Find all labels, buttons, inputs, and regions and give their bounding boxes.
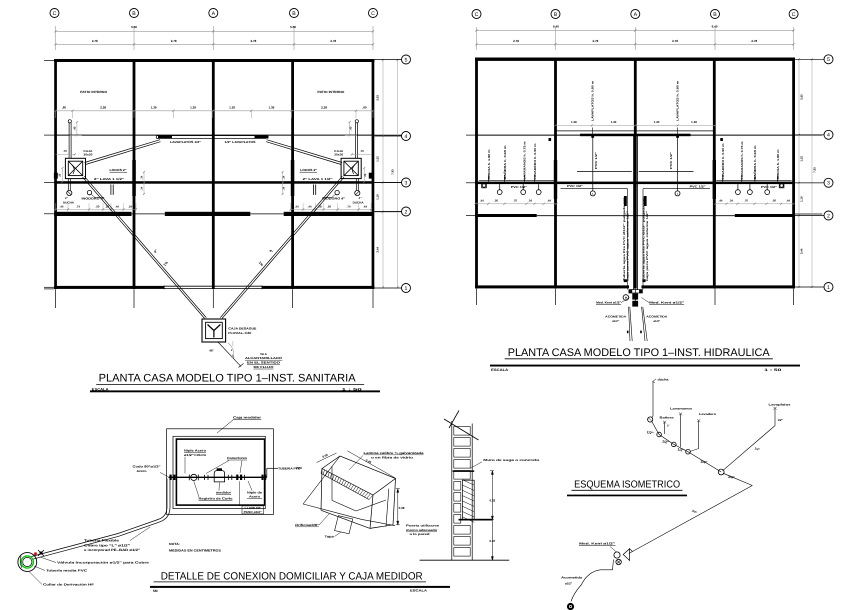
svg-text:1.38: 1.38 xyxy=(691,120,697,124)
svg-text:1/2″ LAVAPLATOS: 1/2″ LAVAPLATOS xyxy=(225,140,256,144)
svg-text:Lavadero: Lavadero xyxy=(699,412,716,416)
caja medidor inner thick box xyxy=(176,439,264,505)
row 4 line + counter (right plan) xyxy=(477,134,794,136)
ground line xyxy=(420,559,510,561)
incoming flexible pipe S-curve xyxy=(32,479,168,557)
svg-text:2: 2 xyxy=(827,213,830,219)
bricks xyxy=(454,427,470,436)
svg-text:LAVADERO h. 0.90 m: LAVADERO h. 0.90 m xyxy=(721,143,725,180)
svg-text:LAVAPLATOS h. 0.80 m: LAVAPLATOS h. 0.80 m xyxy=(590,80,594,121)
svg-text:PVC 1/2″: PVC 1/2″ xyxy=(669,151,673,169)
svg-text:ESCALA: ESCALA xyxy=(491,368,509,372)
svg-text:Válvula Incorporación ø1/2″ pa: Válvula Incorporación ø1/2″ para Cobre xyxy=(57,561,150,565)
svg-text:7.93: 7.93 xyxy=(813,167,817,173)
svg-text:a la pared: a la pared xyxy=(410,532,430,536)
svg-text:Acero: Acero xyxy=(249,495,260,499)
svg-text:Muro de soga o concreto: Muro de soga o concreto xyxy=(483,458,539,462)
svg-text:A: A xyxy=(634,12,638,18)
svg-text:INODORO 4″: INODORO 4″ xyxy=(82,197,106,201)
svg-text:DUCHA h. 1.80 m: DUCHA h. 1.80 m xyxy=(776,149,780,180)
svg-text:1 : 50: 1 : 50 xyxy=(342,387,362,391)
svg-text:.50: .50 xyxy=(494,199,498,203)
label LLAVE DE PASO 1/2" xyxy=(242,506,264,514)
svg-text:.50: .50 xyxy=(772,199,776,203)
svg-text:LAVADERO h. 0.90 m: LAVADERO h. 0.90 m xyxy=(533,143,537,180)
grid extensions below right plan xyxy=(476,289,478,305)
dimension line 5.56 + 5.56 (left plan) xyxy=(56,30,374,32)
svg-text:C: C xyxy=(475,12,479,18)
svg-text:Cobre tipo “L” ø1/2″: Cobre tipo “L” ø1/2″ xyxy=(84,543,131,547)
svg-text:.34: .34 xyxy=(729,199,733,203)
main pipe through meter box xyxy=(169,476,267,478)
branch lavadero xyxy=(698,421,700,449)
dimension line 2.78 x4 (right plan) xyxy=(477,43,794,45)
svg-text:.74: .74 xyxy=(76,205,80,209)
svg-text:PVC 1/2″: PVC 1/2″ xyxy=(761,185,778,189)
PVC 1/2 riser left house xyxy=(592,136,594,191)
svg-text:1: 1 xyxy=(405,286,408,292)
floor drain (ducha) below box xyxy=(67,179,69,191)
svg-text:.44: .44 xyxy=(719,199,723,203)
toilet drain circle (inodoro) xyxy=(87,190,91,194)
svg-text:ducha: ducha xyxy=(658,378,669,382)
row 2 wall with door gaps (left plan) xyxy=(54,212,131,216)
valve drops below supply line (left house) xyxy=(499,184,501,190)
dim lines fixtures (right plan left house) xyxy=(475,203,556,205)
svg-text:30x30: 30x30 xyxy=(83,152,93,156)
small vertical dim beside shower box xyxy=(363,168,365,182)
svg-text:.34: .34 xyxy=(140,186,143,190)
grid line extensions left of plan xyxy=(44,182,54,184)
svg-text:6.40: 6.40 xyxy=(712,25,718,29)
svg-text:e incorporad PE–BAD ø1/2″: e incorporad PE–BAD ø1/2″ xyxy=(84,548,141,552)
street main dot xyxy=(567,603,574,610)
svg-text:3: 3 xyxy=(827,181,830,187)
svg-text:DUCHA: DUCHA xyxy=(353,200,364,204)
brick wall section verticals xyxy=(451,421,453,560)
wall crossing blobs xyxy=(262,475,264,480)
svg-text:VA A: VA A xyxy=(260,352,268,356)
door mark on exterior wall xyxy=(54,173,58,179)
roof diagonals xyxy=(444,419,479,440)
branch bañera xyxy=(664,423,666,434)
PVC 1/2 riser right house xyxy=(677,136,679,191)
svg-text:.45: .45 xyxy=(348,126,352,130)
svg-text:Orificioø3/8″: Orificioø3/8″ xyxy=(295,523,320,527)
lintel thick lines xyxy=(453,470,475,472)
row 3 wall (right plan) xyxy=(475,182,795,185)
svg-text:.70: .70 xyxy=(63,149,67,153)
svg-text:.34: .34 xyxy=(282,175,285,179)
svg-text:2.78: 2.78 xyxy=(171,39,177,43)
svg-text:.34: .34 xyxy=(528,199,532,203)
svg-text:LODOS 2″: LODOS 2″ xyxy=(300,168,318,172)
svg-text:.34: .34 xyxy=(295,205,299,209)
valve incorporacion (red) on main xyxy=(34,552,37,555)
svg-text:BAÑERA h. 0.60 m: BAÑERA h. 0.60 m xyxy=(503,145,507,180)
svg-text:2.78: 2.78 xyxy=(672,39,678,43)
svg-text:2: 2 xyxy=(405,209,408,215)
svg-text:1.39: 1.39 xyxy=(229,105,235,109)
dim .45 vertical xyxy=(349,122,351,135)
bathroom partition walls y=171 xyxy=(577,170,632,172)
svg-text:5.56: 5.56 xyxy=(131,25,137,29)
svg-text:30x30: 30x30 xyxy=(334,152,344,156)
svg-text:C: C xyxy=(792,12,796,18)
svg-text:2.78: 2.78 xyxy=(751,39,757,43)
valve circles at meter xyxy=(614,552,620,558)
vent pipe riser with circle top xyxy=(355,120,358,123)
svg-text:ESCALA: ESCALA xyxy=(92,387,110,391)
caja medidor middle box xyxy=(173,436,265,508)
svg-text:1.39: 1.39 xyxy=(268,105,274,109)
svg-text:2.78: 2.78 xyxy=(330,39,336,43)
svg-text:1.40: 1.40 xyxy=(611,120,617,124)
svg-text:o en fibra de vidrio: o en fibra de vidrio xyxy=(371,455,413,459)
svg-text:2″ LAVA 1 1/2″: 2″ LAVA 1 1/2″ xyxy=(94,177,125,181)
svg-text:1.18: 1.18 xyxy=(376,194,380,200)
svg-text:Registro de Corte: Registro de Corte xyxy=(199,497,233,501)
union ticks right xyxy=(227,475,229,480)
registro de corte circle fitting xyxy=(191,474,197,480)
valve circle ducha xyxy=(648,417,653,422)
svg-text:ESCALA: ESCALA xyxy=(410,588,428,592)
caja medidor outer box xyxy=(167,429,274,515)
walls columns right plan xyxy=(475,58,478,289)
right dim strip (right plan) xyxy=(798,59,800,287)
svg-text:.70: .70 xyxy=(360,149,364,153)
svg-text:0.38: 0.38 xyxy=(399,506,405,510)
small vertical dim beside shower box xyxy=(61,168,63,182)
svg-text:LODOS 2″: LODOS 2″ xyxy=(110,168,128,172)
svg-text:.25: .25 xyxy=(364,173,367,177)
svg-text:.45: .45 xyxy=(72,126,76,130)
svg-text:Tubería media PVC: Tubería media PVC xyxy=(46,569,88,573)
caja 30x30 shower trap box with X xyxy=(341,158,361,178)
outlet line 45 degrees to sewer xyxy=(218,342,241,367)
svg-text:.60: .60 xyxy=(362,105,367,109)
union ticks xyxy=(204,475,206,480)
svg-text:B: B xyxy=(292,11,296,17)
dimension line 2.78 x4 (left plan) xyxy=(56,43,374,45)
isometric meter box open top rim xyxy=(322,456,396,495)
meter symbol triangle xyxy=(623,549,629,561)
svg-text:NOTA:: NOTA: xyxy=(169,542,180,546)
svg-text:1/2″: 1/2″ xyxy=(778,418,784,422)
svg-text:A: A xyxy=(212,11,216,17)
elbow + step to TUBERIA PVC label xyxy=(266,468,268,477)
shower mixer symbol right xyxy=(779,183,784,188)
kitchen counter with sinks (lavaplatos) xyxy=(157,136,267,139)
lavatory twin pipes below wall xyxy=(110,185,112,195)
svg-text:.34: .34 xyxy=(282,186,285,190)
svg-text:.44: .44 xyxy=(115,205,119,209)
svg-text:1.52: 1.52 xyxy=(799,156,803,162)
top wall (right plan) xyxy=(475,58,795,61)
svg-text:.25: .25 xyxy=(59,173,62,177)
svg-text:PVC 1/2″: PVC 1/2″ xyxy=(511,185,528,189)
svg-text:DE FLUJO: DE FLUJO xyxy=(254,365,275,369)
branch supply lines to central meters xyxy=(561,188,628,190)
supply pipe double line over row3 xyxy=(479,180,554,182)
row 3 wall (left plan) xyxy=(54,181,374,184)
svg-text:1.18: 1.18 xyxy=(799,196,803,202)
dimension line .44 .74 .50 .28 .44 .34 xyxy=(56,208,137,210)
water meters at bottom center xyxy=(624,279,627,282)
dim lines fixtures (right plan right house) xyxy=(715,203,794,205)
svg-text:LAVAPLATOS h. 0.80 m: LAVAPLATOS h. 0.80 m xyxy=(675,80,679,121)
isometric box right verticals xyxy=(393,479,396,525)
valve at junction xyxy=(718,469,724,475)
svg-text:2.78: 2.78 xyxy=(250,39,256,43)
door mark on exterior wall xyxy=(369,173,373,179)
isometric box outer back-left edge and front skirt xyxy=(303,456,340,504)
svg-text:C: C xyxy=(53,11,57,17)
central supply pipes pair xyxy=(633,135,635,290)
svg-text:3: 3 xyxy=(405,180,408,186)
svg-text:ø1/2″: ø1/2″ xyxy=(565,582,573,586)
dimension line 6.40 + 6.40 (right plan) xyxy=(477,29,794,31)
dim .70 horizontal xyxy=(352,153,371,155)
svg-text:Acero: Acero xyxy=(137,469,147,473)
grid bubbles C B A B C (right plan) xyxy=(472,10,481,19)
svg-text:1: 1 xyxy=(827,285,830,291)
row 2 wall segments (right plan) xyxy=(475,214,537,217)
svg-text:1.52: 1.52 xyxy=(376,156,380,162)
valve fitting left xyxy=(170,475,172,480)
angle arc gray xyxy=(228,343,234,357)
svg-text:1.39: 1.39 xyxy=(190,105,196,109)
svg-text:C: C xyxy=(371,11,375,17)
caja de registro Y at bottom center xyxy=(202,319,226,342)
svg-text:PVC 1/2″: PVC 1/2″ xyxy=(690,185,707,189)
svg-text:5: 5 xyxy=(405,57,408,63)
row 4 interior wall / counter line xyxy=(56,134,374,136)
svg-text:DETALLE DE CONEXION DOMICILIAR: DETALLE DE CONEXION DOMICILIAR Y CAJA ME… xyxy=(161,570,423,582)
branch lavamanos xyxy=(680,414,682,447)
svg-text:B: B xyxy=(132,11,136,17)
svg-text:SM: SM xyxy=(153,589,158,593)
row bubbles 5 4 3 2 1 (right plan) xyxy=(795,58,824,60)
concrete hatch block xyxy=(462,480,474,519)
svg-text:45°: 45° xyxy=(209,349,214,353)
svg-text:PATIO INTERNO: PATIO INTERNO xyxy=(80,90,108,94)
svg-text:LAVAMANOS h. 0.75 m: LAVAMANOS h. 0.75 m xyxy=(740,141,744,180)
svg-text:2.62: 2.62 xyxy=(376,95,380,101)
svg-text:EN EL SENTIDO: EN EL SENTIDO xyxy=(247,361,281,365)
svg-text:.34: .34 xyxy=(128,205,132,209)
svg-text:PLANTA CASA MODELO TIPO 1–INST: PLANTA CASA MODELO TIPO 1–INST. HIDRAULI… xyxy=(508,347,771,359)
svg-text:.44: .44 xyxy=(308,205,312,209)
acometida pipes below meters xyxy=(629,307,630,341)
dim 0.45 isometric xyxy=(347,451,395,478)
svg-text:CAJA DESAGUE: CAJA DESAGUE xyxy=(228,326,256,330)
lavatory twin pipes below wall xyxy=(315,185,317,195)
svg-text:Tapa: Tapa xyxy=(325,535,334,539)
isometric box left front vertical xyxy=(321,469,322,511)
dim .45 vertical xyxy=(76,122,78,135)
svg-text:.70: .70 xyxy=(744,199,748,203)
vertical dim .34 .34 xyxy=(282,172,284,194)
svg-text:DUCHA h. 1.80 m: DUCHA h. 1.80 m xyxy=(487,149,491,180)
svg-text:baja para PVC agua caliente 1/: baja para PVC agua caliente 1/2″ xyxy=(646,210,649,281)
main drain diagonal pipe to caja Y xyxy=(222,177,344,318)
wall column B right xyxy=(291,59,294,289)
svg-text:ALCANTARILLADO: ALCANTARILLADO xyxy=(245,356,283,360)
rotated pipe labels central left xyxy=(624,196,627,206)
svg-text:.74: .74 xyxy=(347,205,351,209)
row 1 bottom wall with central window band xyxy=(54,286,164,289)
svg-text:ESQUEMA ISOMETRICO: ESQUEMA ISOMETRICO xyxy=(574,479,680,490)
svg-text:Conectores: Conectores xyxy=(227,456,247,460)
floor drain (ducha) below box xyxy=(357,179,359,191)
svg-text:.44: .44 xyxy=(547,199,551,203)
svg-text:ø1/2″: ø1/2″ xyxy=(653,319,661,323)
svg-text:5: 5 xyxy=(827,57,830,63)
interior dimension line y=111 (left plan) xyxy=(56,110,374,112)
branch lavaplatos xyxy=(774,409,776,426)
shower mixer symbol left xyxy=(482,183,487,188)
svg-text:.70: .70 xyxy=(513,199,517,203)
svg-text:B: B xyxy=(713,12,717,18)
svg-text:.50: .50 xyxy=(96,205,100,209)
svg-text:2.62: 2.62 xyxy=(799,94,803,100)
row 1 bottom wall with meter gap (right plan) xyxy=(475,285,629,288)
svg-text:MEDIDAS EN CENTIMETROS: MEDIDAS EN CENTIMETROS xyxy=(169,549,221,553)
dim 0.38 isometric xyxy=(397,489,399,525)
svg-text:ø1/2″×10cm: ø1/2″×10cm xyxy=(184,453,206,457)
caja 30x30 shower trap box with X xyxy=(65,158,85,178)
svg-text:0.37: 0.37 xyxy=(489,539,495,543)
svg-text:BAÑERA h. 0.60 m: BAÑERA h. 0.60 m xyxy=(753,145,757,180)
dimension extension lines (left plan top) xyxy=(55,26,57,50)
svg-text:ø1/2″: ø1/2″ xyxy=(612,319,620,323)
top wall (left plan) xyxy=(54,59,374,62)
svg-text:Acometida: Acometida xyxy=(561,576,583,580)
grid line extensions below plan xyxy=(55,289,57,308)
vertical dim .34 .34 xyxy=(143,172,145,194)
svg-text:medidor: medidor xyxy=(216,490,232,494)
valve fitting right (niple) xyxy=(236,475,238,480)
svg-text:DUCHA: DUCHA xyxy=(63,200,74,204)
isometric box interior back edges xyxy=(331,466,333,500)
svg-text:PLANTA CASA MODELO TIPO 1–INST: PLANTA CASA MODELO TIPO 1–INST. SANITARI… xyxy=(99,373,357,385)
vent pipe riser with circle top xyxy=(68,120,71,123)
svg-text:2.78: 2.78 xyxy=(92,39,98,43)
svg-text:2.44: 2.44 xyxy=(799,248,803,254)
valve drops below supply line (right house) xyxy=(737,184,739,190)
svg-text:Tubería Flexible: Tubería Flexible xyxy=(84,539,119,543)
main drain diagonal pipe to caja Y xyxy=(83,177,205,318)
svg-text:4: 4 xyxy=(827,133,830,139)
svg-text:PATIO INTERNO: PATIO INTERNO xyxy=(317,90,345,94)
svg-text:2.28: 2.28 xyxy=(100,105,106,109)
svg-text:PVC: PVC xyxy=(296,466,303,470)
svg-text:2.44: 2.44 xyxy=(376,247,380,253)
acometida curve down to main xyxy=(571,560,614,602)
svg-text:.50: .50 xyxy=(327,205,331,209)
svg-text:PVC 1/2″: PVC 1/2″ xyxy=(594,151,598,169)
svg-text:Bañera: Bañera xyxy=(660,416,675,420)
wall section dim lines xyxy=(491,471,493,560)
dimension extension lines (right plan top) xyxy=(476,27,478,50)
svg-text:1.38: 1.38 xyxy=(571,120,577,124)
grid bubbles C B A B C (left plan) xyxy=(50,9,59,18)
svg-text:Lamina calibre ¼ galvanizada: Lamina calibre ¼ galvanizada xyxy=(364,451,424,455)
svg-text:PASO ø1/2″: PASO ø1/2″ xyxy=(244,510,263,514)
svg-text:Caja medidor: Caja medidor xyxy=(233,416,262,420)
svg-text:Lavaplatos: Lavaplatos xyxy=(769,402,792,406)
dim 0.55 isometric xyxy=(317,453,337,463)
svg-text:.44: .44 xyxy=(363,205,367,209)
svg-text:4: 4 xyxy=(405,134,408,140)
wall column C right xyxy=(372,59,375,289)
wall column C left xyxy=(54,59,57,289)
svg-text:B: B xyxy=(554,12,558,18)
isometric box bottom edges xyxy=(321,510,370,528)
svg-text:LAVAMANOS h. 0.75 m: LAVAMANOS h. 0.75 m xyxy=(523,141,527,180)
wall column B left xyxy=(133,59,136,289)
wall column A xyxy=(212,59,215,289)
svg-text:LAVAPLATOS 1/2″: LAVAPLATOS 1/2″ xyxy=(170,140,202,144)
svg-text:baja para PVC agua caliente 1/: baja para PVC agua caliente 1/2″ xyxy=(626,210,629,281)
svg-text:6.40: 6.40 xyxy=(553,25,559,29)
dimension line .44 .74 .50 .28 .44 .34 xyxy=(291,208,372,210)
open lid flap (tapa) xyxy=(335,516,353,534)
main line to meter xyxy=(723,473,752,485)
collar de derivacion green main circle xyxy=(18,553,37,572)
svg-text:0.32: 0.32 xyxy=(489,499,495,503)
svg-text:Med. Kent ø1/2″: Med. Kent ø1/2″ xyxy=(579,541,616,545)
dim line 1.38 1.40 between B and A xyxy=(556,124,716,126)
svg-text:2.28: 2.28 xyxy=(321,105,327,109)
svg-text:2″ LAVA 1 1/2″: 2″ LAVA 1 1/2″ xyxy=(303,177,334,181)
svg-text:Med. Kent ø1/2″: Med. Kent ø1/2″ xyxy=(596,301,622,305)
svg-text:.34: .34 xyxy=(140,175,143,179)
svg-text:.44: .44 xyxy=(786,199,790,203)
valve circles inline xyxy=(657,432,662,437)
svg-text:5.56: 5.56 xyxy=(290,25,296,29)
svg-text:1.40: 1.40 xyxy=(654,120,660,124)
rotated pipe labels central right xyxy=(644,196,647,206)
svg-text:1.39: 1.39 xyxy=(151,105,157,109)
svg-text:2.78: 2.78 xyxy=(592,39,598,43)
svg-text:Collar de Derivación HF: Collar de Derivación HF xyxy=(43,583,94,587)
svg-text:.60: .60 xyxy=(62,105,67,109)
svg-text:Lavamanos: Lavamanos xyxy=(670,407,693,411)
svg-text:PLUVIAL–0.60: PLUVIAL–0.60 xyxy=(228,331,251,335)
kitchen drain diagonal pipes to counter xyxy=(85,140,161,163)
svg-text:.44: .44 xyxy=(480,199,484,203)
dim .70 horizontal xyxy=(56,153,75,155)
svg-text:7.93: 7.93 xyxy=(391,169,395,175)
svg-text:.44: .44 xyxy=(60,205,64,209)
right dim strip (left plan) xyxy=(382,60,384,288)
svg-text:PVC 1/2″: PVC 1/2″ xyxy=(567,184,584,188)
isometric box hatched lid edge band xyxy=(321,473,369,499)
toilet drain circle (inodoro) xyxy=(335,190,339,194)
row bubbles 5 4 3 2 1 (left plan) xyxy=(375,59,402,61)
svg-text:1 : 50: 1 : 50 xyxy=(764,368,781,372)
svg-text:Med. Kent ø1/2″: Med. Kent ø1/2″ xyxy=(649,301,685,305)
water meter body xyxy=(214,471,224,482)
svg-text:2.78: 2.78 xyxy=(513,39,519,43)
main isometric distribution line with valve bends xyxy=(652,422,721,473)
